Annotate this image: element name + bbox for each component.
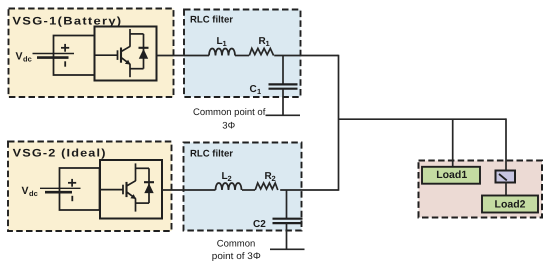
svg-text:VSG-2 (Ideal): VSG-2 (Ideal) [13, 147, 107, 159]
capacitor C2 [273, 190, 303, 249]
VSG-2 title label [13, 147, 107, 159]
svg-text:Common: Common [217, 239, 256, 250]
battery B2 plus sign [68, 179, 76, 187]
resistor R1 [249, 48, 273, 55]
svg-text:2: 2 [228, 174, 232, 183]
resistor R2 label [265, 171, 276, 183]
svg-text:Load2: Load2 [495, 198, 526, 210]
svg-text:Common point of: Common point of [193, 107, 266, 118]
battery B2 loop [60, 168, 100, 210]
wire bus to loads [339, 118, 507, 120]
svg-text:C2: C2 [253, 219, 266, 230]
inductor L2 label [222, 171, 232, 183]
IGBT Q1 [95, 29, 131, 77]
RLC filter 1 title label [190, 14, 233, 25]
Load dashed box [419, 161, 543, 218]
Vdc label 2 [22, 185, 38, 198]
battery B1 minus mark [64, 61, 66, 66]
common point bar 2 [270, 248, 305, 250]
wire switch to Load2 [505, 182, 507, 196]
svg-text:RLC filter: RLC filter [190, 148, 233, 159]
wire vertical joining filter outputs at node [338, 55, 340, 191]
wire L2 to R2 [242, 189, 255, 191]
battery B1 loop [54, 36, 96, 76]
battery B1 plus sign [61, 44, 69, 52]
svg-text:2: 2 [272, 174, 276, 183]
svg-text:V: V [22, 185, 29, 197]
svg-text:point of 3Φ: point of 3Φ [212, 251, 261, 262]
common point bar 1 [266, 114, 301, 116]
svg-text:3Φ: 3Φ [222, 120, 235, 131]
battery B2 minus mark [71, 196, 73, 201]
svg-text:dc: dc [29, 189, 38, 198]
svg-text:1: 1 [223, 39, 227, 48]
svg-text:dc: dc [23, 55, 32, 64]
wire converter U1 output to filter 1 [157, 55, 210, 57]
inductor L1 label [217, 36, 227, 48]
RLC filter 1 dashed box [184, 10, 301, 98]
inductor L1 [209, 49, 235, 56]
IGBT Q2 [100, 163, 136, 211]
wire R2 to node and out of filter 2 [280, 189, 338, 191]
battery B2 long plate (+) [40, 187, 81, 189]
VSG-2 dashed box [8, 142, 172, 232]
RLC filter 2 dashed box [184, 143, 302, 231]
VSG-1 dashed box [9, 9, 174, 98]
Load1 box [422, 167, 480, 184]
wire drop to switch [505, 118, 507, 171]
VSG-1 title label [12, 15, 122, 27]
wire converter U2 output to filter 2 [162, 189, 216, 191]
common point text 2 [212, 239, 261, 262]
diode D1 [130, 34, 149, 69]
Load2 box [482, 196, 538, 213]
switch S1 [496, 171, 516, 183]
svg-text:RLC filter: RLC filter [190, 14, 233, 25]
battery B1 long plate (+) [33, 53, 75, 55]
capacitor C1 label [250, 84, 262, 96]
common point text 1 [193, 107, 266, 131]
diode D2 [136, 168, 155, 203]
battery B1 short plate (-) [37, 56, 69, 59]
capacitor C1 [269, 56, 298, 116]
svg-text:1: 1 [266, 39, 270, 48]
svg-text:1: 1 [257, 87, 261, 96]
converter U1 box [95, 27, 157, 81]
wire L1 to R1 [235, 55, 249, 57]
converter U2 box [100, 160, 162, 219]
resistor R1 label [259, 36, 270, 48]
resistor R2 [255, 183, 278, 190]
wire drop to Load1 [452, 119, 454, 167]
wire R1 to node and out of filter 1 [274, 55, 338, 57]
svg-text:C: C [250, 84, 257, 95]
battery B2 short plate (-) [45, 191, 72, 194]
Vdc label 1 [16, 51, 32, 64]
capacitor C2 label [253, 219, 266, 230]
svg-text:Load1: Load1 [436, 169, 467, 181]
inductor L2 [216, 183, 242, 190]
RLC filter 2 title label [190, 148, 233, 159]
svg-text:V: V [16, 51, 23, 63]
